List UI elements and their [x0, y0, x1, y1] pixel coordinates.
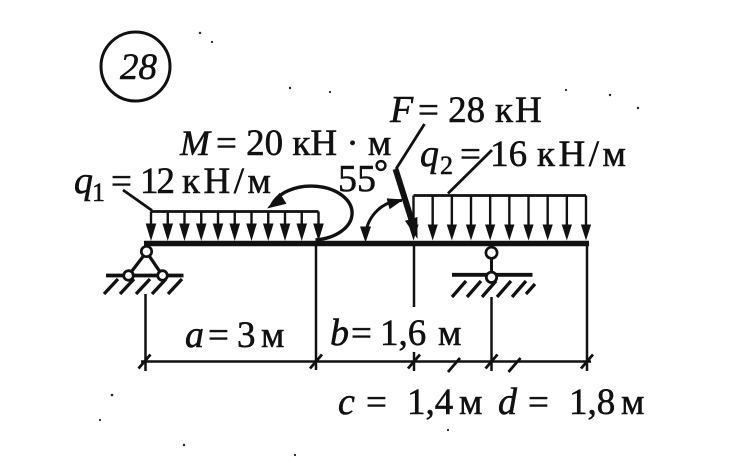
- lower circle: [486, 272, 496, 282]
- svg-text:q: q: [74, 160, 93, 202]
- ground hatching: [104, 279, 182, 294]
- 55 degree angle arc: [366, 200, 403, 235]
- distributed load q1 arrows: [146, 212, 324, 242]
- force F leader (thin): [396, 124, 425, 169]
- svg-text:28: 28: [120, 47, 158, 88]
- label F = 28 kN: [389, 89, 544, 131]
- angle arc arrowhead toward force: [387, 198, 404, 209]
- svg-text:= 28: = 28: [418, 90, 485, 131]
- label d = 1,8 m: [498, 381, 644, 423]
- svg-text:=: =: [208, 315, 229, 356]
- svg-text:м: м: [621, 382, 644, 423]
- scan speckles: [99, 32, 639, 456]
- triangle legs: [129, 252, 147, 276]
- force F arrowhead: [405, 217, 418, 239]
- extension line right end: [586, 246, 589, 371]
- svg-text:м: м: [438, 313, 461, 354]
- label b = 1,6 m: [330, 312, 461, 354]
- svg-text:=: =: [351, 313, 372, 354]
- moment arc M: [272, 186, 353, 240]
- svg-text:d: d: [498, 381, 518, 423]
- extra slash d: [509, 358, 521, 372]
- label q2 = 16 kN/m: [420, 133, 629, 180]
- extension line at F lower stub: [413, 352, 416, 371]
- extension line a-b boundary: [315, 246, 318, 370]
- extension line at F (b-c boundary) upper part: [413, 246, 416, 307]
- svg-text:=: =: [366, 382, 387, 423]
- label c = 1,4 m: [338, 381, 482, 423]
- ground hatching: [452, 281, 535, 297]
- force F shaft (thick): [396, 169, 413, 223]
- extra slash c: [448, 358, 460, 372]
- dimension line: [141, 360, 591, 363]
- roller circles: [124, 271, 134, 281]
- svg-text:=: =: [528, 382, 549, 423]
- extension line left end: [144, 294, 147, 371]
- svg-text:кН: кН: [495, 90, 544, 131]
- svg-text:м: м: [261, 315, 284, 356]
- upper circle: [486, 247, 497, 258]
- svg-text:кН/м: кН/м: [182, 161, 274, 202]
- link: [490, 258, 493, 272]
- svg-text:c: c: [338, 381, 355, 423]
- svg-text:кН/м: кН/м: [537, 134, 629, 175]
- svg-text:F: F: [389, 89, 414, 131]
- left support (pin on rollers): [104, 246, 184, 294]
- leader line from q2 label to load: [448, 150, 492, 194]
- ground line: [106, 274, 184, 278]
- label q1 = 12 kN/m: [74, 160, 274, 207]
- svg-text:2: 2: [440, 151, 453, 180]
- svg-text:a: a: [185, 314, 204, 356]
- label 55 degrees: [338, 158, 385, 200]
- svg-text:3: 3: [237, 315, 256, 356]
- moment arrowhead: [267, 193, 287, 209]
- svg-text:м: м: [459, 382, 482, 423]
- label M = 20 kN*m: [179, 123, 391, 164]
- leader line from q1 label to load: [123, 190, 152, 211]
- distributed load q2 top line: [414, 194, 587, 197]
- distributed load q1 top line: [151, 210, 319, 213]
- svg-text:b: b: [330, 312, 349, 354]
- svg-text:55: 55: [338, 158, 376, 200]
- svg-text:1,4: 1,4: [407, 382, 453, 423]
- svg-text:= 16: = 16: [460, 134, 527, 175]
- ground line: [452, 273, 533, 277]
- extension line right support (c-d boundary): [490, 297, 493, 371]
- svg-text:1: 1: [92, 178, 105, 207]
- angle arc arrowhead down: [360, 227, 371, 243]
- right support (roller): [452, 247, 535, 297]
- beam: [144, 241, 589, 247]
- svg-text:1,8: 1,8: [569, 382, 615, 423]
- pin circle: [141, 246, 151, 256]
- problem number circle 28: [101, 32, 170, 101]
- distributed load q2 arrows: [408, 196, 591, 241]
- svg-text:=: =: [111, 161, 132, 202]
- dimension ticks: [139, 355, 594, 373]
- svg-text:1,6: 1,6: [380, 313, 426, 354]
- label a = 3 m: [185, 314, 284, 356]
- svg-text:M: M: [179, 123, 212, 163]
- svg-text:12: 12: [140, 161, 174, 202]
- svg-text:q: q: [420, 133, 439, 175]
